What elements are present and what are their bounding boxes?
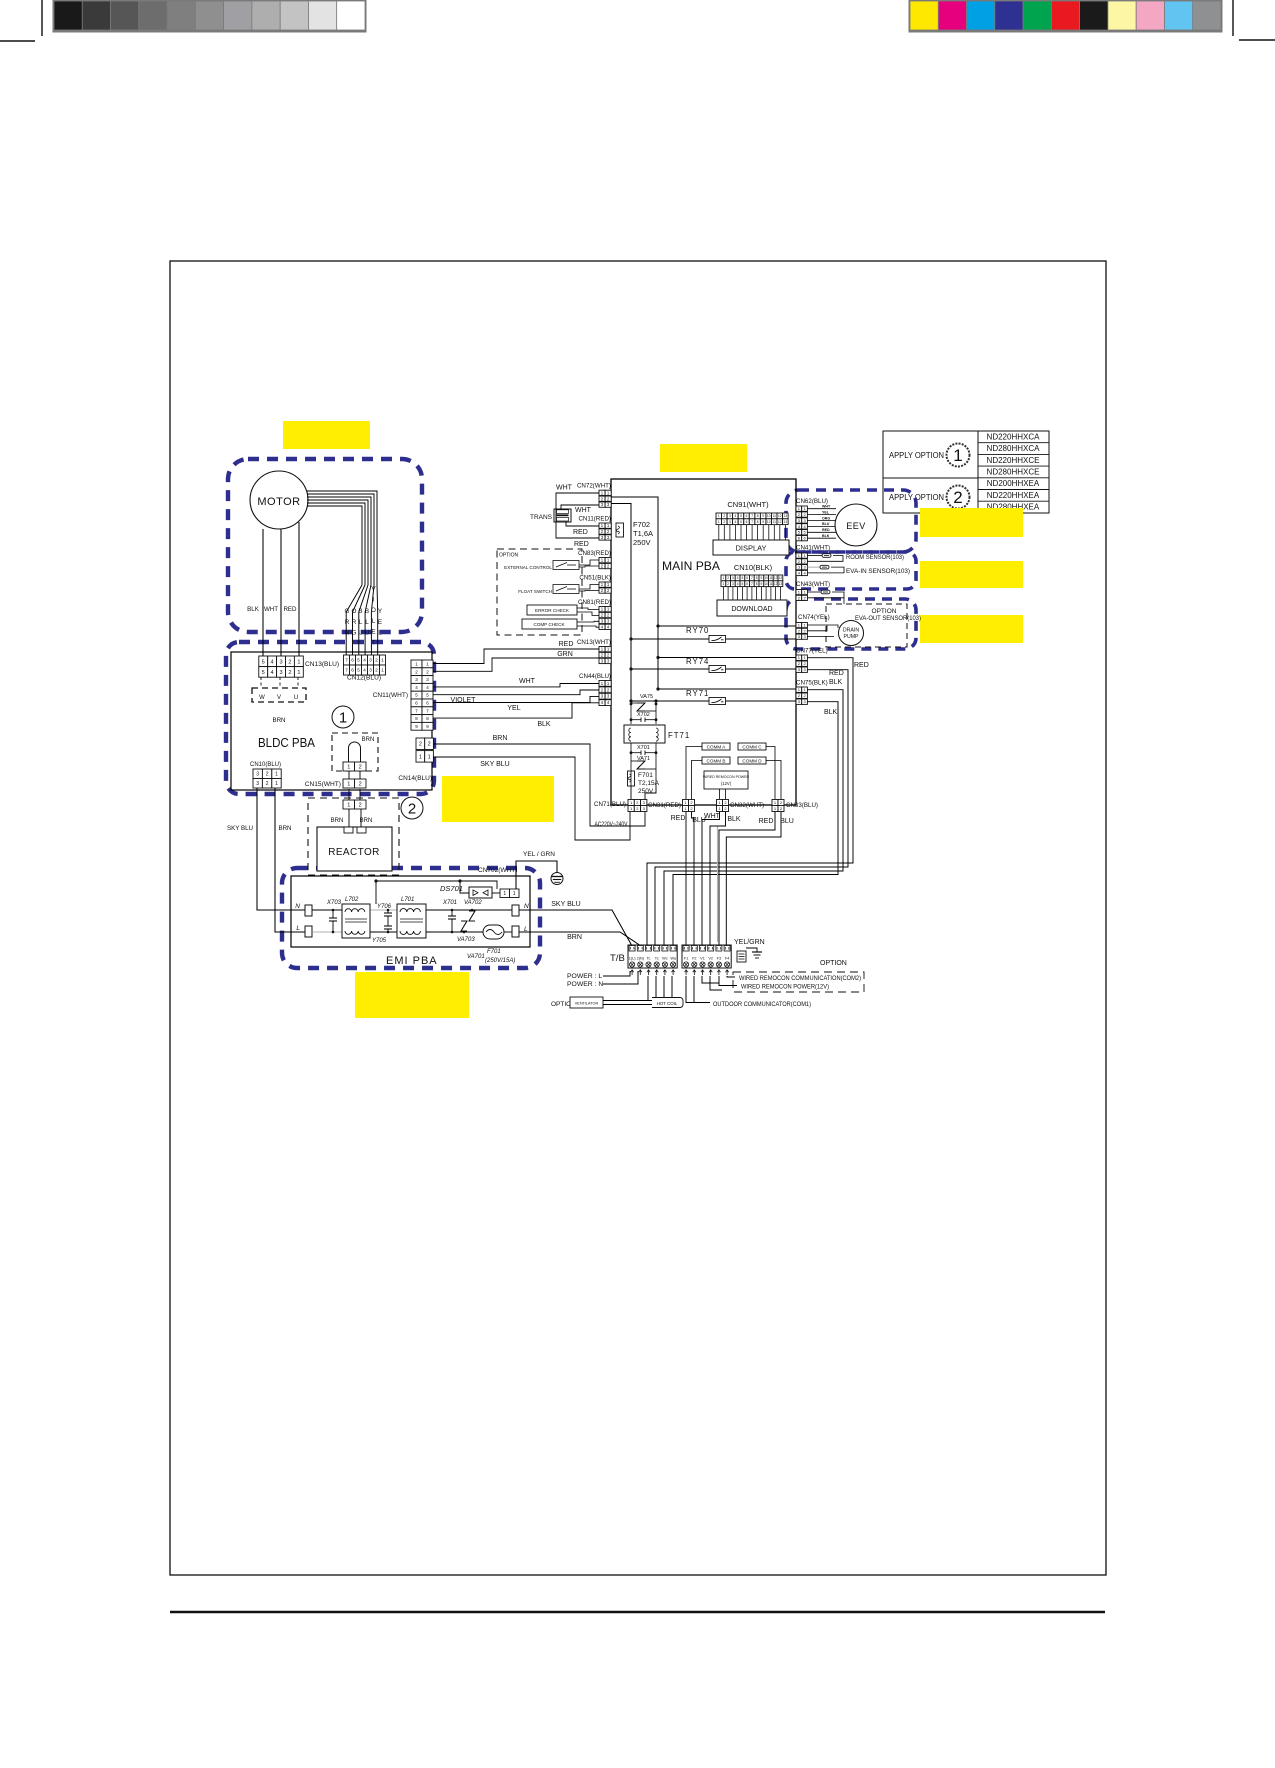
svg-text:F1: F1 <box>684 957 688 961</box>
ground earth symbol <box>551 873 563 885</box>
svg-text:2: 2 <box>727 582 729 586</box>
svg-text:3: 3 <box>280 659 283 665</box>
wire COMM D to CN33 <box>766 761 781 800</box>
svg-text:BLK: BLK <box>824 709 838 716</box>
wire bundle motor to CN12 <box>307 491 378 655</box>
svg-text:MOTOR: MOTOR <box>257 496 300 508</box>
svg-text:6: 6 <box>746 520 748 524</box>
svg-text:ERROR CHECK: ERROR CHECK <box>535 608 570 613</box>
node option circle 2 <box>401 797 423 819</box>
svg-text:11: 11 <box>773 514 777 518</box>
BLDC PBA board outline <box>231 652 432 790</box>
hot coil box <box>652 998 683 1008</box>
label VA701 F701 250V/15A <box>467 949 515 964</box>
terminal N in <box>295 903 312 916</box>
svg-text:8: 8 <box>757 514 759 518</box>
bottom rule line <box>170 1611 1105 1614</box>
connector CN91(WHT) <box>716 500 788 525</box>
svg-text:WIRED REMOCON POWER: WIRED REMOCON POWER <box>703 775 750 779</box>
svg-text:YEL: YEL <box>507 705 520 712</box>
svg-text:N: N <box>295 903 300 910</box>
label motor bundle wire colors <box>345 586 383 647</box>
svg-text:Y706: Y706 <box>377 904 392 910</box>
block wired remocon power 12V <box>703 771 750 789</box>
inductor L701 <box>397 897 426 938</box>
connector CN12(BLU) <box>344 655 386 682</box>
svg-text:L: L <box>296 925 300 932</box>
wire WHT loop CN72 <box>556 493 599 538</box>
wire EMI top rail <box>376 881 497 889</box>
svg-text:CN41(WHT): CN41(WHT) <box>796 545 830 552</box>
switch external control <box>504 560 599 570</box>
wires hot coil to terminals <box>655 976 657 998</box>
svg-text:VA75: VA75 <box>640 694 653 700</box>
drain pump dashed box <box>826 604 907 647</box>
svg-text:EEV: EEV <box>846 521 866 531</box>
svg-text:YEL: YEL <box>822 510 830 514</box>
svg-text:CN11(WHT): CN11(WHT) <box>373 692 408 699</box>
svg-text:4: 4 <box>363 668 366 673</box>
svg-text:CN71(BLU): CN71(BLU) <box>594 801 626 808</box>
svg-text:CN75(BLK): CN75(BLK) <box>796 680 828 687</box>
svg-text:6: 6 <box>746 582 748 586</box>
svg-text:F701: F701 <box>638 772 653 779</box>
svg-text:RED: RED <box>671 815 686 822</box>
svg-text:2: 2 <box>723 520 725 524</box>
connector CN10(BLK) <box>721 563 783 587</box>
wires CN62 to EEV <box>807 505 836 539</box>
svg-text:BLK: BLK <box>822 534 830 538</box>
svg-text:2: 2 <box>428 742 431 748</box>
connector CN31(RED) <box>648 800 695 812</box>
svg-text:1: 1 <box>718 520 720 524</box>
svg-text:ND220HHXEA: ND220HHXEA <box>987 491 1040 500</box>
svg-text:V: V <box>277 695 281 701</box>
svg-text:RED: RED <box>854 662 869 669</box>
svg-text:BLU: BLU <box>822 522 830 526</box>
wire YEL BLDC to CN44 <box>433 696 599 702</box>
svg-text:R: R <box>345 619 350 626</box>
svg-text:3: 3 <box>256 772 259 778</box>
relay RY71 <box>629 689 796 705</box>
EMI PBA board outline <box>291 876 530 947</box>
svg-text:2: 2 <box>727 576 729 580</box>
block COMM A <box>702 743 730 750</box>
svg-text:2: 2 <box>375 658 378 663</box>
svg-text:5: 5 <box>740 514 742 518</box>
wire motor BLK <box>262 529 264 656</box>
connector CN77(YEL) <box>796 648 828 673</box>
svg-text:CN91(WHT): CN91(WHT) <box>727 500 769 509</box>
svg-text:3: 3 <box>369 658 372 663</box>
apply option table <box>883 431 1049 513</box>
wire row CN74 pin1 <box>658 625 796 627</box>
svg-text:T: T <box>372 640 376 647</box>
display block <box>713 540 789 555</box>
terminal arrows <box>631 970 729 975</box>
svg-text:BLK: BLK <box>537 721 551 728</box>
color calibration strip <box>910 0 1221 31</box>
svg-text:7: 7 <box>345 658 348 663</box>
wire BLK CN32 to V2 <box>710 812 726 946</box>
wire CN15 to reactor <box>348 789 350 800</box>
svg-text:OPTION: OPTION <box>820 960 847 967</box>
svg-text:4: 4 <box>271 670 274 676</box>
svg-text:RY74: RY74 <box>686 657 709 666</box>
svg-text:CN10(BLK): CN10(BLK) <box>734 563 773 572</box>
svg-text:2: 2 <box>359 782 362 788</box>
svg-text:1: 1 <box>419 754 422 760</box>
svg-text:L: L <box>365 619 369 626</box>
ventilator box <box>570 997 603 1008</box>
svg-text:4: 4 <box>363 658 366 663</box>
fuse F701 main <box>628 771 660 795</box>
fuse F702 <box>616 520 653 547</box>
transformer TRANS <box>530 509 571 522</box>
svg-text:MAIN PBA: MAIN PBA <box>662 561 720 573</box>
connector CN13(BLU) <box>259 656 339 677</box>
svg-text:GRN: GRN <box>557 651 573 658</box>
svg-text:CN15(WHT): CN15(WHT) <box>305 781 341 788</box>
connector CN43(WHT) <box>796 581 830 601</box>
svg-text:PUMP: PUMP <box>844 634 860 640</box>
svg-text:CN51(BLK): CN51(BLK) <box>579 575 611 582</box>
svg-text:RED: RED <box>573 529 588 536</box>
svg-text:11: 11 <box>773 520 777 524</box>
dashed option box: BLDC PBA <box>226 642 434 794</box>
svg-text:5: 5 <box>262 670 265 676</box>
grayscale calibration strip <box>54 0 365 31</box>
inductor L702 <box>342 897 370 938</box>
svg-text:ROOM SENSOR(103): ROOM SENSOR(103) <box>846 554 904 561</box>
svg-text:10: 10 <box>767 520 771 524</box>
svg-text:BRN: BRN <box>278 825 291 832</box>
wire motor RED <box>298 522 300 656</box>
room sensor <box>807 554 904 562</box>
svg-text:OPTION: OPTION <box>872 608 897 615</box>
svg-text:3: 3 <box>729 520 731 524</box>
wire WHT CN32 to V1 <box>702 812 720 946</box>
svg-text:SKY BLU: SKY BLU <box>551 901 580 908</box>
svg-text:RED: RED <box>822 528 830 532</box>
svg-text:12: 12 <box>774 576 778 580</box>
svg-text:ND280HHXCE: ND280HHXCE <box>987 468 1040 477</box>
terminal L out <box>512 926 528 937</box>
svg-text:12: 12 <box>778 514 782 518</box>
connector CN10(BLU) <box>250 762 281 788</box>
yellow highlight 4 <box>920 561 1023 588</box>
svg-text:W: W <box>259 695 265 701</box>
eva-out sensor wire <box>807 590 844 604</box>
wire internal bus x658 <box>611 497 658 689</box>
svg-text:G: G <box>345 608 350 615</box>
svg-text:U: U <box>358 630 363 637</box>
eva-in sensor <box>807 565 910 575</box>
svg-text:3: 3 <box>729 514 731 518</box>
wire gray V backbone <box>717 826 719 942</box>
svg-text:2: 2 <box>288 670 291 676</box>
connector CN41(WHT) <box>796 545 830 576</box>
svg-text:CN43(WHT): CN43(WHT) <box>796 581 830 588</box>
connector CN32(WHT) <box>717 800 765 812</box>
wires CN74 to drain pump <box>807 625 838 628</box>
block COMM D <box>738 757 766 764</box>
svg-text:4: 4 <box>271 659 274 665</box>
svg-text:2: 2 <box>408 801 416 818</box>
svg-text:X701: X701 <box>637 745 650 751</box>
svg-text:OPTION: OPTION <box>499 553 519 559</box>
svg-text:Tc: Tc <box>655 957 659 961</box>
svg-text:OUTDOOR COMMUNICATOR(COM1): OUTDOOR COMMUNICATOR(COM1) <box>713 1001 811 1008</box>
diode block DS701 <box>469 887 492 898</box>
svg-text:FLOAT SWITCH: FLOAT SWITCH <box>518 589 552 594</box>
wire TRANS to CN11 pin1 <box>566 522 599 526</box>
svg-text:O: O <box>371 607 376 614</box>
svg-text:7: 7 <box>345 668 348 673</box>
capacitor X701 <box>631 743 656 786</box>
svg-text:9: 9 <box>762 520 764 524</box>
connector CN13(WHT) <box>577 639 611 664</box>
svg-text:2: 2 <box>288 659 291 665</box>
svg-text:B: B <box>365 608 369 615</box>
yellow highlight 7 <box>355 972 469 1018</box>
right crop marks <box>1233 0 1275 40</box>
relay RY70 <box>629 626 796 643</box>
svg-text:12: 12 <box>774 582 778 586</box>
svg-text:T/B: T/B <box>610 953 625 964</box>
svg-text:2: 2 <box>723 514 725 518</box>
svg-text:L702: L702 <box>345 897 359 903</box>
svg-text:1: 1 <box>275 772 278 778</box>
svg-text:250V: 250V <box>633 538 651 547</box>
svg-text:F3: F3 <box>717 957 721 961</box>
terminal block 2 F1 F2 V1 V2 F3 F4 <box>682 945 731 968</box>
svg-text:CN10(BLU): CN10(BLU) <box>250 762 281 768</box>
connector CN51(BLK) <box>579 575 611 594</box>
dashed option box: EEV <box>786 490 916 552</box>
dashed option box: motor <box>228 459 422 632</box>
svg-text:AC220V~240V: AC220V~240V <box>595 821 628 828</box>
svg-text:(12V): (12V) <box>721 781 732 786</box>
svg-text:5: 5 <box>262 659 265 665</box>
svg-text:11: 11 <box>769 576 773 580</box>
svg-text:DISPLAY: DISPLAY <box>735 544 766 553</box>
svg-text:Wa: Wa <box>670 957 676 961</box>
svg-text:Y705: Y705 <box>372 938 387 944</box>
svg-text:12: 12 <box>778 520 782 524</box>
node W V U <box>252 677 306 702</box>
label BLK WHT RED motor leads <box>247 606 297 613</box>
svg-text:ORG: ORG <box>822 516 830 520</box>
svg-text:4: 4 <box>737 582 739 586</box>
wire COMM A to CN31 <box>686 747 702 800</box>
svg-text:CN12(BLU): CN12(BLU) <box>347 675 381 682</box>
svg-text:WIRED REMOCON COMMUNICATION(CO: WIRED REMOCON COMMUNICATION(COM2) <box>739 976 861 982</box>
svg-text:RED: RED <box>829 670 844 677</box>
svg-text:5: 5 <box>742 582 744 586</box>
wire BLU CN31 to F2 <box>692 812 695 946</box>
svg-text:6: 6 <box>351 658 354 663</box>
svg-text:7: 7 <box>751 576 753 580</box>
svg-text:1: 1 <box>428 754 431 760</box>
svg-text:9: 9 <box>761 582 763 586</box>
svg-text:WHT: WHT <box>264 606 278 613</box>
svg-text:1: 1 <box>953 446 962 465</box>
connector CN62(BLU) <box>796 498 828 541</box>
svg-text:2: 2 <box>359 803 362 809</box>
varistor VA702 <box>464 900 482 921</box>
svg-text:1: 1 <box>347 765 350 771</box>
connector CN702 1 1 <box>500 889 510 898</box>
svg-text:CN13(BLU): CN13(BLU) <box>305 661 339 668</box>
EEV valve <box>835 504 877 546</box>
svg-text:RY71: RY71 <box>686 689 709 698</box>
svg-text:ND280HHXCA: ND280HHXCA <box>987 444 1041 453</box>
svg-text:9: 9 <box>761 576 763 580</box>
terminal N out <box>512 903 529 916</box>
svg-text:COMM B: COMM B <box>707 758 726 763</box>
varistor VA703 <box>457 921 475 943</box>
dashed remocon box <box>733 972 864 992</box>
wire remocon power to CN32 <box>719 789 721 799</box>
svg-text:B: B <box>358 608 362 615</box>
svg-text:9: 9 <box>762 514 764 518</box>
svg-text:CN74(YEL): CN74(YEL) <box>798 614 830 621</box>
svg-text:ND200HHXEA: ND200HHXEA <box>987 479 1040 488</box>
svg-text:T1,6A: T1,6A <box>633 529 653 538</box>
svg-text:250V: 250V <box>638 788 654 795</box>
svg-text:BLDC PBA: BLDC PBA <box>258 736 316 750</box>
svg-text:VENTILATOR: VENTILATOR <box>575 1002 599 1006</box>
svg-text:13: 13 <box>784 514 788 518</box>
block COMM C <box>738 743 766 750</box>
svg-text:DRAIN: DRAIN <box>843 628 859 634</box>
svg-text:CN702(WHT): CN702(WHT) <box>478 867 517 874</box>
wire RED BLDC to CN13(WHT) <box>433 649 599 664</box>
yellow highlight 1 <box>283 421 370 449</box>
svg-text:BRN: BRN <box>567 934 582 941</box>
wire CN77 pin1 to terminal <box>647 658 853 945</box>
svg-text:SKY BLU: SKY BLU <box>480 761 509 768</box>
svg-text:13: 13 <box>779 582 783 586</box>
wire CN75 pin1 to terminal <box>664 690 843 945</box>
svg-text:ND220HHXCA: ND220HHXCA <box>987 432 1041 441</box>
svg-text:4: 4 <box>737 576 739 580</box>
svg-text:R: R <box>352 619 357 626</box>
svg-text:POWER : L: POWER : L <box>567 973 602 980</box>
left crop marks <box>0 0 42 41</box>
svg-text:RED: RED <box>759 818 774 825</box>
svg-text:7: 7 <box>751 514 753 518</box>
svg-text:5: 5 <box>357 668 360 673</box>
connector CN14(BLU) <box>398 738 433 782</box>
connector CN11(WHT) BLDC <box>373 660 433 730</box>
svg-text:N: N <box>524 903 529 910</box>
svg-text:BLK: BLK <box>829 679 843 686</box>
filter FT71 <box>624 725 690 743</box>
svg-text:SKY BLU: SKY BLU <box>227 825 253 832</box>
svg-text:ND220HHXCE: ND220HHXCE <box>987 456 1040 465</box>
wire row CN75 pin1 <box>658 688 796 690</box>
svg-text:1: 1 <box>347 803 350 809</box>
svg-text:3: 3 <box>369 668 372 673</box>
svg-text:6: 6 <box>351 668 354 673</box>
svg-text:F4: F4 <box>725 957 729 961</box>
svg-text:REACTOR: REACTOR <box>328 847 380 858</box>
wire reactor pins <box>348 809 350 827</box>
capacitor Y706 <box>377 904 392 926</box>
svg-text:VA702: VA702 <box>464 900 482 906</box>
svg-text:CN14(BLU): CN14(BLU) <box>398 775 432 782</box>
dashed option box: EMI PBA <box>282 868 540 968</box>
svg-text:V1: V1 <box>700 957 705 961</box>
svg-text:2(N): 2(N) <box>637 957 645 961</box>
svg-text:X701: X701 <box>442 900 457 906</box>
svg-text:YEL/GRN: YEL/GRN <box>734 939 765 946</box>
svg-text:13: 13 <box>784 520 788 524</box>
wire WHT BLDC to CN44 <box>433 684 599 687</box>
svg-text:EVA-IN SENSOR(103): EVA-IN SENSOR(103) <box>846 568 910 575</box>
wire EMI N line <box>312 909 342 911</box>
connector CN74(YEL) <box>796 614 830 639</box>
drain pump motor <box>839 621 864 646</box>
wire CN91 pins to display <box>719 525 786 540</box>
option dashed box left <box>497 549 582 635</box>
svg-text:1: 1 <box>381 658 384 663</box>
svg-text:E: E <box>371 629 375 636</box>
svg-text:7: 7 <box>751 520 753 524</box>
capacitor X703 <box>326 900 342 933</box>
svg-text:1: 1 <box>503 891 506 897</box>
wire TRANS to CN72 pin3 <box>561 505 599 509</box>
svg-text:11: 11 <box>769 582 773 586</box>
svg-text:YEL / GRN: YEL / GRN <box>523 851 555 858</box>
connector CN15(WHT) <box>305 779 366 788</box>
capacitor X702 <box>631 703 656 724</box>
wire BRN CN10 to EMI L <box>275 788 305 932</box>
svg-text:COMM D: COMM D <box>742 758 762 763</box>
svg-text:2: 2 <box>953 488 962 507</box>
motor M1 <box>250 471 308 529</box>
svg-text:1: 1 <box>297 659 300 665</box>
wire RED CN31 to F1 <box>685 812 687 946</box>
svg-text:(250V/15A): (250V/15A) <box>485 958 515 964</box>
svg-text:2: 2 <box>266 781 269 787</box>
wire BLU CN33 to F4 <box>726 812 781 946</box>
svg-text:BRN: BRN <box>362 737 375 743</box>
dashed option box: sensors <box>786 552 916 589</box>
wire SKY BLU EMI to terminal L1 <box>519 910 632 945</box>
svg-text:2: 2 <box>266 772 269 778</box>
svg-text:Wc: Wc <box>662 957 668 961</box>
svg-text:CN83(RED): CN83(RED) <box>578 550 611 557</box>
connector CN75(BLK) <box>796 680 828 705</box>
svg-text:2: 2 <box>375 668 378 673</box>
wire jumper to CN15 <box>348 771 350 779</box>
svg-text:5: 5 <box>742 576 744 580</box>
wire row CN77 pin1 <box>658 657 796 659</box>
svg-text:F701: F701 <box>487 949 501 955</box>
svg-text:WHT: WHT <box>704 813 721 820</box>
svg-text:U: U <box>294 695 298 701</box>
svg-text:BRN: BRN <box>331 818 344 824</box>
svg-text:L: L <box>372 618 376 625</box>
svg-text:V2: V2 <box>708 957 713 961</box>
yellow highlight 2 <box>660 444 747 472</box>
switch float switch <box>518 585 599 595</box>
svg-text:G: G <box>352 630 357 637</box>
svg-text:O: O <box>352 608 357 615</box>
